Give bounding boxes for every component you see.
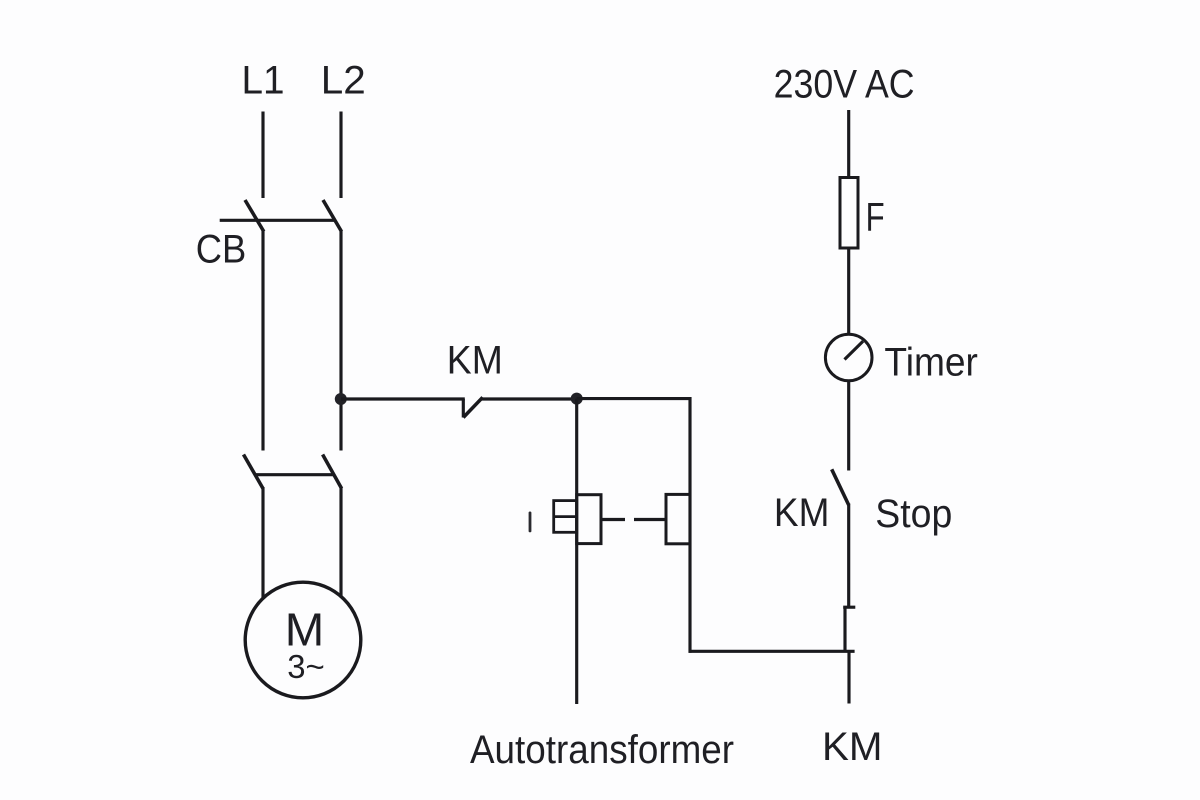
svg-text:L2: L2 (321, 59, 366, 103)
wire L1 middle segment (261, 230, 264, 451)
svg-text:KM: KM (774, 491, 830, 535)
wire L2 lower segment (339, 487, 342, 598)
contact KM auxiliary blade (463, 397, 482, 417)
svg-text:M: M (285, 604, 325, 656)
wire fuse to timer (847, 248, 850, 335)
wire L2 lead (339, 112, 342, 199)
wire bottom run to coil (689, 650, 855, 653)
wire control tap from L2 junction (341, 397, 465, 400)
autotransformer position indicator divider (554, 515, 577, 518)
timer KT circle (825, 334, 872, 381)
node junction dot on L2 (335, 393, 347, 405)
wire coil lead (847, 651, 850, 703)
svg-text:KM: KM (822, 725, 883, 769)
pushbutton Stop head bar (843, 606, 855, 609)
fuse F body (840, 178, 858, 249)
svg-text:230V AC: 230V AC (774, 63, 915, 107)
circuit breaker CB linkage bar (220, 219, 335, 222)
contactor KM main pole 2 blade (323, 455, 342, 489)
circuit breaker CB pole 1 blade (245, 200, 264, 232)
svg-text:3~: 3~ (287, 649, 325, 686)
contactor KM main linkage bar (255, 473, 334, 476)
motor M1 circle (245, 582, 361, 698)
contactor KM main pole 1 blade (244, 455, 264, 489)
svg-text:L1: L1 (242, 59, 285, 103)
node junction dot autotransformer tap (571, 393, 583, 405)
mechanical link dash 2 (634, 518, 666, 521)
autotransformer switch actuator box A (577, 495, 601, 544)
contactor actuator box B (666, 494, 690, 543)
svg-text:F: F (866, 196, 885, 240)
svg-text:CB: CB (196, 228, 247, 272)
svg-text:Stop: Stop (875, 492, 952, 536)
wire junction to branch corner (577, 399, 690, 653)
timer KT hand (845, 341, 864, 359)
svg-text:Autotransformer: Autotransformer (470, 728, 734, 772)
circuit breaker CB pole 2 blade (323, 200, 342, 232)
contact KM auxiliary notch (462, 399, 465, 418)
autotransformer position indicator double box (554, 501, 577, 533)
wire autotransformer lead (575, 399, 578, 704)
autotransformer position label I (529, 512, 532, 533)
pushbutton Stop plunger (843, 607, 846, 652)
mechanical link dash 1 (601, 518, 625, 521)
wire timer to contact (847, 381, 850, 471)
wire L1 lead (261, 112, 264, 199)
svg-text:Timer: Timer (884, 341, 978, 385)
wire supply lead (847, 110, 850, 179)
wire contact to junction (482, 397, 577, 400)
wire contact to stop button (847, 504, 850, 609)
svg-text:KM: KM (447, 339, 503, 383)
wire L1 lower segment (261, 487, 264, 599)
contact KM hold-in blade (832, 469, 849, 505)
wire L2 middle segment (339, 230, 342, 451)
